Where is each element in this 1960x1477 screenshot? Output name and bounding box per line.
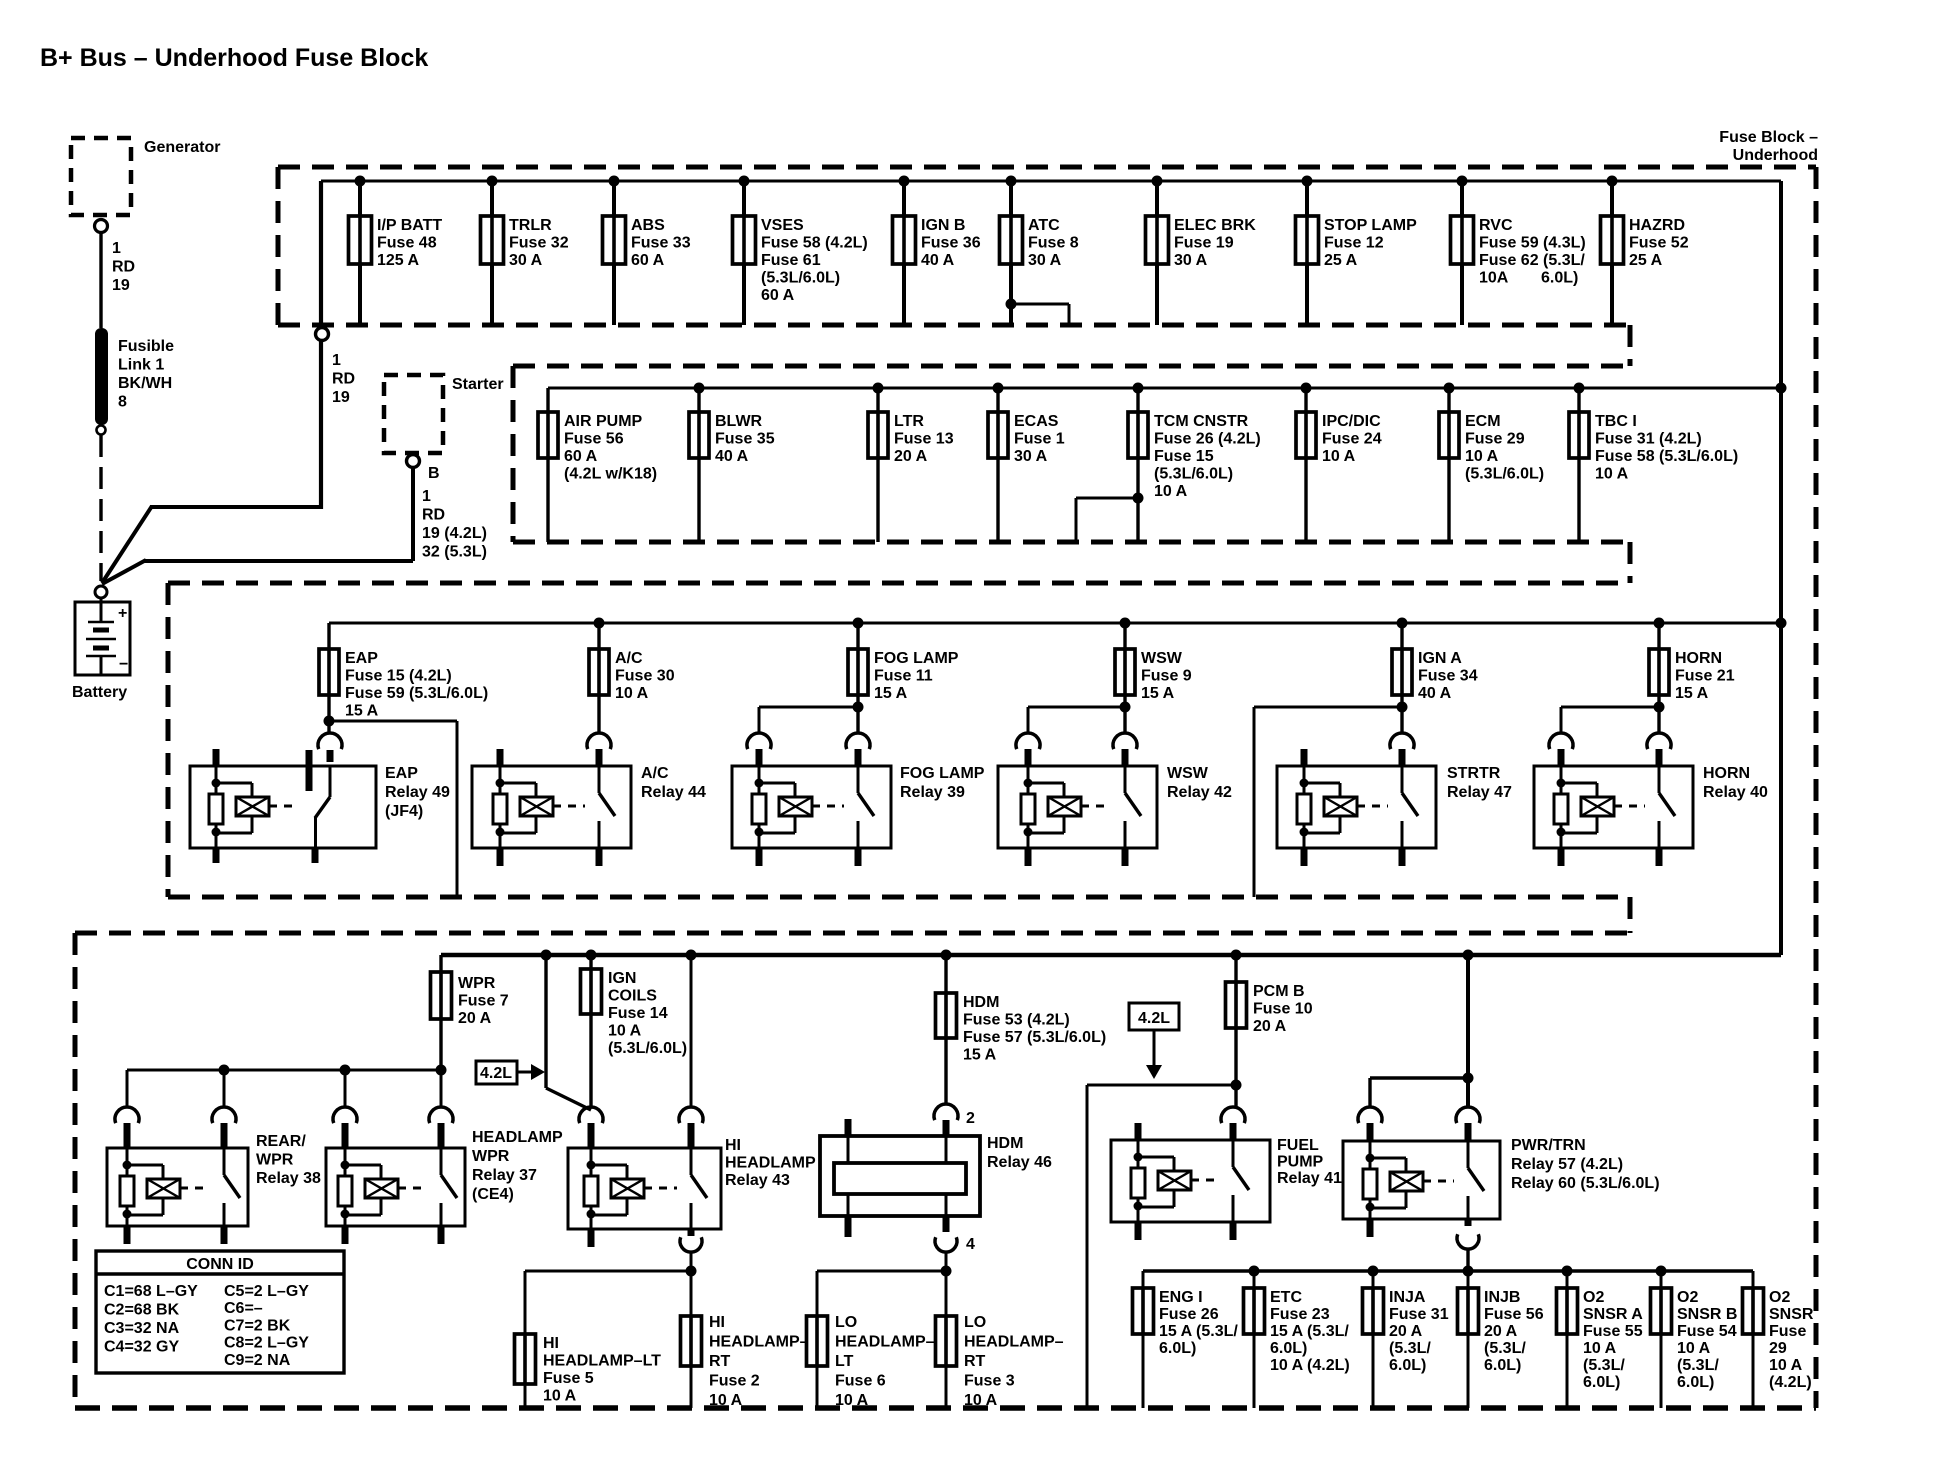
svg-text:15 A: 15 A <box>345 703 379 720</box>
svg-text:10 A: 10 A <box>709 1392 743 1409</box>
fuse EAP (row3) <box>319 623 488 720</box>
fuse block row1 dashed left edge <box>276 167 281 325</box>
battery positive terminal <box>95 586 107 598</box>
svg-text:6.0L): 6.0L) <box>1541 270 1578 287</box>
svg-text:A/C: A/C <box>641 765 669 782</box>
relay PWR/TRN Relay 57/60 <box>1343 1107 1660 1237</box>
svg-text:TCM CNSTR: TCM CNSTR <box>1154 413 1249 430</box>
svg-text:15 A (5.3L/: 15 A (5.3L/ <box>1159 1323 1238 1340</box>
svg-text:WSW: WSW <box>1141 650 1183 667</box>
fuse block row1 dashed top edge <box>278 165 1816 170</box>
fusible link 1 <box>95 328 108 425</box>
svg-text:Fuse 8: Fuse 8 <box>1028 235 1079 252</box>
fuse INJB (eng row) <box>1458 1266 1544 1409</box>
svg-text:HAZRD: HAZRD <box>1629 217 1685 234</box>
wire generator to fusible link <box>99 233 102 328</box>
svg-text:Fuse 56: Fuse 56 <box>1484 1306 1544 1323</box>
svg-text:60 A: 60 A <box>761 287 795 304</box>
fuse IGN A (row3) <box>1392 618 1478 703</box>
wire 4.2L diagonal feed <box>541 950 592 1111</box>
svg-text:40 A: 40 A <box>715 448 749 465</box>
svg-text:Fuse 34: Fuse 34 <box>1418 668 1478 685</box>
fuse ECM (row2) <box>1439 383 1544 543</box>
svg-text:10 A: 10 A <box>543 1388 577 1405</box>
svg-text:SNSR: SNSR <box>1769 1306 1814 1323</box>
svg-text:(JF4): (JF4) <box>385 803 423 820</box>
svg-text:Fuse 24: Fuse 24 <box>1322 431 1382 448</box>
relay HDM Relay 46 <box>820 1104 1052 1237</box>
svg-text:(5.3L/: (5.3L/ <box>1389 1340 1431 1357</box>
svg-text:ENG I: ENG I <box>1159 1289 1203 1306</box>
row2 bus <box>548 383 1787 394</box>
svg-text:Fuse 55: Fuse 55 <box>1583 1323 1643 1340</box>
svg-text:HEADLAMP: HEADLAMP <box>472 1129 563 1146</box>
fuse O2 SNSR (eng row) <box>1743 1271 1814 1408</box>
svg-text:BK/WH: BK/WH <box>118 375 172 392</box>
battery + sign <box>118 605 127 622</box>
svg-text:Underhood: Underhood <box>1733 147 1818 164</box>
svg-text:C7=2 BK: C7=2 BK <box>224 1317 291 1334</box>
fuse IPC/DIC (row2) <box>1296 383 1382 543</box>
fuse ATC (row1) <box>1000 176 1079 326</box>
svg-text:HEADLAMP: HEADLAMP <box>725 1155 816 1172</box>
svg-text:25 A: 25 A <box>1629 252 1663 269</box>
svg-text:(5.3L/: (5.3L/ <box>1484 1340 1526 1357</box>
svg-text:Relay 47: Relay 47 <box>1447 784 1512 801</box>
svg-text:C5=2 L–GY: C5=2 L–GY <box>224 1283 309 1300</box>
svg-text:Fuse 52: Fuse 52 <box>1629 235 1689 252</box>
fuse ENG I (eng row) <box>1133 1271 1239 1408</box>
svg-text:FUEL: FUEL <box>1277 1137 1319 1154</box>
ENG bus <box>1143 1269 1753 1272</box>
svg-text:ECAS: ECAS <box>1014 413 1059 430</box>
svg-text:Fuse 58 (4.2L): Fuse 58 (4.2L) <box>761 235 868 252</box>
svg-text:ETC: ETC <box>1270 1289 1302 1306</box>
svg-text:Fuse 57 (5.3L/6.0L): Fuse 57 (5.3L/6.0L) <box>963 1029 1106 1046</box>
svg-text:C2=68 BK: C2=68 BK <box>104 1302 180 1319</box>
fuse WPR Fuse 7 <box>431 955 509 1070</box>
fuse block notch row1-row2 <box>1628 325 1633 366</box>
relay HEADLAMP WPR Relay 37 <box>326 1107 563 1244</box>
svg-text:EAP: EAP <box>345 650 378 667</box>
fuse LO HEADLAMP-RT Fuse 3 <box>936 1314 1064 1409</box>
svg-text:10 A: 10 A <box>1154 483 1188 500</box>
svg-text:WPR: WPR <box>472 1148 510 1165</box>
svg-text:1: 1 <box>112 240 121 257</box>
starter B terminal <box>407 455 420 468</box>
svg-text:4.2L: 4.2L <box>480 1065 512 1082</box>
svg-text:Relay 60 (5.3L/6.0L): Relay 60 (5.3L/6.0L) <box>1511 1175 1660 1192</box>
svg-text:20 A: 20 A <box>894 448 928 465</box>
fuse TBC I (row2) <box>1569 383 1738 543</box>
wire terminal down to corner <box>319 340 323 509</box>
fuse block row2 dashed bottom edge <box>513 540 1630 545</box>
row3 bus <box>329 618 1787 629</box>
svg-text:4: 4 <box>966 1236 975 1253</box>
relay HI HEADLAMP Relay 43 <box>568 1107 816 1247</box>
svg-text:AIR PUMP: AIR PUMP <box>564 413 643 430</box>
fuse HI HEADLAMP-LT Fuse 5 <box>515 1334 662 1408</box>
svg-text:Fuse 59 (4.3L): Fuse 59 (4.3L) <box>1479 235 1586 252</box>
svg-text:Fuse 36: Fuse 36 <box>921 235 981 252</box>
svg-text:6.0L): 6.0L) <box>1159 1340 1196 1357</box>
svg-text:C3=32 NA: C3=32 NA <box>104 1320 180 1337</box>
svg-text:Fuse 32: Fuse 32 <box>509 235 569 252</box>
svg-text:10 A (4.2L): 10 A (4.2L) <box>1270 1357 1350 1374</box>
wire starter to battery <box>102 560 413 584</box>
svg-text:Fuse 14: Fuse 14 <box>608 1005 668 1022</box>
svg-text:RT: RT <box>964 1353 986 1370</box>
wire fusible link to battery (dashed) <box>99 435 102 581</box>
svg-text:LO: LO <box>835 1314 857 1331</box>
svg-text:10 A: 10 A <box>1769 1357 1803 1374</box>
svg-text:Fuse 48: Fuse 48 <box>377 235 437 252</box>
wire A/C fuse to relay switch <box>597 695 600 733</box>
svg-text:6.0L): 6.0L) <box>1270 1340 1307 1357</box>
svg-text:O2: O2 <box>1769 1289 1790 1306</box>
svg-text:TRLR: TRLR <box>509 217 552 234</box>
svg-text:HI: HI <box>709 1314 725 1331</box>
svg-text:10A: 10A <box>1479 270 1509 287</box>
svg-text:INJB: INJB <box>1484 1289 1520 1306</box>
fuse RVC (row1) <box>1451 176 1586 326</box>
svg-text:ATC: ATC <box>1028 217 1060 234</box>
fusible link lower terminal <box>97 426 106 435</box>
svg-text:10 A: 10 A <box>1677 1340 1711 1357</box>
svg-text:Fuse 13: Fuse 13 <box>894 431 954 448</box>
right feeder bus <box>1779 181 1783 955</box>
CONN ID table <box>96 1251 344 1373</box>
svg-text:40 A: 40 A <box>921 252 955 269</box>
fuse INJA (eng row) <box>1363 1266 1449 1409</box>
fuse block row4 dashed bottom edge <box>75 1405 1816 1411</box>
svg-text:4.2L: 4.2L <box>1138 1010 1170 1027</box>
wire HORN fuse output + coil branch <box>1561 695 1665 733</box>
svg-text:Link 1: Link 1 <box>118 357 164 374</box>
svg-text:LO: LO <box>964 1314 986 1331</box>
wire bus to PWR/TRN relay <box>1370 950 1474 1108</box>
svg-text:B+ Bus – Underhood Fuse Block: B+ Bus – Underhood Fuse Block <box>40 44 428 72</box>
svg-text:10 A: 10 A <box>1583 1340 1617 1357</box>
generator G1 (dashed box) <box>71 138 131 215</box>
svg-text:WSW: WSW <box>1167 765 1209 782</box>
svg-text:Relay 44: Relay 44 <box>641 784 706 801</box>
svg-text:SNSR A: SNSR A <box>1583 1306 1643 1323</box>
svg-text:19 (4.2L): 19 (4.2L) <box>422 525 487 542</box>
generator output terminal <box>95 220 108 233</box>
fuse BLWR (row2) <box>689 383 775 543</box>
svg-text:FOG LAMP: FOG LAMP <box>900 765 985 782</box>
svg-text:10 A: 10 A <box>964 1392 998 1409</box>
relay STRTR Relay 47 <box>1277 733 1512 866</box>
svg-text:HEADLAMP–: HEADLAMP– <box>835 1334 935 1351</box>
svg-text:Fuse 15: Fuse 15 <box>1154 448 1214 465</box>
fuse TRLR (row1) <box>481 176 569 326</box>
svg-text:IGN A: IGN A <box>1418 650 1462 667</box>
fuse block notch row3-row4 <box>1628 897 1633 933</box>
svg-text:19: 19 <box>112 277 130 294</box>
fuse FOG LAMP (row3) <box>848 618 959 703</box>
svg-text:TBC I: TBC I <box>1595 413 1637 430</box>
svg-text:CONN ID: CONN ID <box>186 1256 254 1273</box>
fuse block notch row2-row3 <box>1628 542 1633 583</box>
svg-text:Relay 49: Relay 49 <box>385 784 450 801</box>
svg-text:PUMP: PUMP <box>1277 1154 1324 1171</box>
fuse HORN (row3) <box>1649 618 1735 703</box>
svg-text:VSES: VSES <box>761 217 804 234</box>
svg-text:Relay 40: Relay 40 <box>1703 784 1768 801</box>
svg-text:FOG LAMP: FOG LAMP <box>874 650 959 667</box>
wire starter B down <box>411 468 415 561</box>
svg-text:IGN: IGN <box>608 970 636 987</box>
EAP relay pins+arc <box>216 733 342 863</box>
fuse HDM Fuse 53/57 <box>936 950 1107 1105</box>
connector 4 below HDM <box>935 1236 975 1271</box>
fuse AIR PUMP (row2) <box>538 388 657 542</box>
svg-text:Fuse 54: Fuse 54 <box>1677 1323 1737 1340</box>
svg-text:Relay 37: Relay 37 <box>472 1167 537 1184</box>
fuse block row3 dashed bottom edge <box>168 895 1630 900</box>
svg-text:Fuse 3: Fuse 3 <box>964 1373 1015 1390</box>
svg-text:HDM: HDM <box>963 994 999 1011</box>
relay A/C Relay 44 <box>472 733 706 866</box>
svg-text:Fuse 53 (4.2L): Fuse 53 (4.2L) <box>963 1012 1070 1029</box>
svg-text:Generator: Generator <box>144 139 220 156</box>
fuse ELEC BRK (row1) <box>1146 176 1257 326</box>
svg-text:Fuse 9: Fuse 9 <box>1141 668 1192 685</box>
row4 top bus <box>441 953 1781 958</box>
svg-text:RD: RD <box>112 259 135 276</box>
svg-text:Fuse 62 (5.3L/: Fuse 62 (5.3L/ <box>1479 252 1585 269</box>
svg-text:REAR/: REAR/ <box>256 1133 306 1150</box>
svg-text:Fuse 2: Fuse 2 <box>709 1373 760 1390</box>
svg-text:10 A: 10 A <box>608 1023 642 1040</box>
svg-text:(4.2L w/K18): (4.2L w/K18) <box>564 466 657 483</box>
connector below PWR/TRN relay <box>1457 1234 1479 1271</box>
svg-text:RVC: RVC <box>1479 217 1513 234</box>
fuse ETC (eng row) <box>1244 1266 1350 1409</box>
svg-text:Fuse 31 (4.2L): Fuse 31 (4.2L) <box>1595 431 1702 448</box>
svg-text:(CE4): (CE4) <box>472 1186 514 1203</box>
label B <box>428 465 440 482</box>
svg-text:STOP LAMP: STOP LAMP <box>1324 217 1417 234</box>
svg-text:19: 19 <box>332 389 350 406</box>
fuse PCM B Fuse 10 <box>1226 950 1313 1108</box>
svg-text:BLWR: BLWR <box>715 413 763 430</box>
svg-text:(5.3L/6.0L): (5.3L/6.0L) <box>1465 466 1544 483</box>
svg-text:1: 1 <box>332 352 341 369</box>
svg-text:ELEC BRK: ELEC BRK <box>1174 217 1256 234</box>
svg-text:15 A: 15 A <box>1675 685 1709 702</box>
fuse VSES (row1) <box>733 176 868 326</box>
fuse HAZRD (row1) <box>1601 176 1689 326</box>
svg-text:10 A: 10 A <box>615 685 649 702</box>
fuse block dashed right edge <box>1814 167 1819 1408</box>
svg-text:Relay 46: Relay 46 <box>987 1154 1052 1171</box>
svg-text:PCM B: PCM B <box>1253 983 1305 1000</box>
fuse LTR (row2) <box>868 383 954 543</box>
label Fuse Block - Underhood <box>1719 129 1818 164</box>
svg-text:Relay 57 (4.2L): Relay 57 (4.2L) <box>1511 1156 1623 1173</box>
HDM feed split <box>817 1266 952 1317</box>
svg-text:Fuse: Fuse <box>1769 1323 1806 1340</box>
HI headlamp feed split <box>525 1266 697 1335</box>
svg-text:(5.3L/: (5.3L/ <box>1677 1357 1719 1374</box>
svg-text:Fuse 29: Fuse 29 <box>1465 431 1525 448</box>
fuse WSW (row3) <box>1115 618 1192 703</box>
svg-text:RT: RT <box>709 1353 731 1370</box>
svg-text:RD: RD <box>332 371 355 388</box>
svg-text:HDM: HDM <box>987 1135 1023 1152</box>
svg-text:Fuse 5: Fuse 5 <box>543 1370 594 1387</box>
svg-text:Battery: Battery <box>72 684 127 701</box>
svg-text:C8=2 L–GY: C8=2 L–GY <box>224 1335 309 1352</box>
svg-text:6.0L): 6.0L) <box>1484 1357 1521 1374</box>
svg-text:15 A: 15 A <box>963 1047 997 1064</box>
svg-text:Fuse 26 (4.2L): Fuse 26 (4.2L) <box>1154 431 1261 448</box>
wire fuse block feed to battery <box>102 506 321 583</box>
svg-text:32 (5.3L): 32 (5.3L) <box>422 544 487 561</box>
fuse HI HEADLAMP-RT Fuse 2 <box>681 1314 809 1409</box>
svg-text:O2: O2 <box>1583 1289 1604 1306</box>
svg-text:60 A: 60 A <box>631 252 665 269</box>
svg-text:WPR: WPR <box>458 975 496 992</box>
svg-text:IGN B: IGN B <box>921 217 965 234</box>
svg-text:Relay 39: Relay 39 <box>900 784 965 801</box>
svg-text:Starter: Starter <box>452 376 504 393</box>
fuse TCM CNSTR (row2) <box>1076 383 1261 543</box>
svg-text:O2: O2 <box>1677 1289 1698 1306</box>
svg-text:RD: RD <box>422 507 445 524</box>
svg-text:25 A: 25 A <box>1324 252 1358 269</box>
fuse I/P BATT (row1) <box>349 176 443 326</box>
svg-text:Relay 42: Relay 42 <box>1167 784 1232 801</box>
svg-text:ABS: ABS <box>631 217 665 234</box>
fuse block row1 dashed bottom edge <box>278 323 1630 328</box>
svg-text:20 A: 20 A <box>1389 1323 1423 1340</box>
fuse IGN COILS Fuse 14 <box>581 950 688 1108</box>
connector below HI HEADLAMP relay <box>680 1237 702 1271</box>
svg-text:Fuse 31: Fuse 31 <box>1389 1306 1449 1323</box>
svg-text:I/P BATT: I/P BATT <box>377 217 442 234</box>
svg-text:EAP: EAP <box>385 765 418 782</box>
svg-text:Fuse 56: Fuse 56 <box>564 431 624 448</box>
svg-text:60 A: 60 A <box>564 448 598 465</box>
svg-text:10 A: 10 A <box>1465 448 1499 465</box>
svg-text:Fuse 7: Fuse 7 <box>458 993 509 1010</box>
svg-text:(5.3L/6.0L): (5.3L/6.0L) <box>1154 466 1233 483</box>
fuse ECAS (row2) <box>988 383 1065 543</box>
svg-text:HI: HI <box>543 1335 559 1352</box>
wire WSW fuse output + coil branch <box>1028 695 1131 733</box>
svg-text:6.0L): 6.0L) <box>1677 1374 1714 1391</box>
relay HORN Relay 40 <box>1534 733 1768 866</box>
svg-text:Fuse 21: Fuse 21 <box>1675 668 1735 685</box>
row1 B+ bus <box>321 180 1781 183</box>
relay REAR/WPR Relay 38 <box>107 1107 321 1244</box>
label Fusible Link 1 BK/WH 8 <box>118 338 174 411</box>
svg-text:STRTR: STRTR <box>1447 765 1501 782</box>
svg-text:Fuse 61: Fuse 61 <box>761 252 821 269</box>
relay FOG LAMP Relay 39 <box>732 733 985 866</box>
svg-text:Relay 38: Relay 38 <box>256 1170 321 1187</box>
wire label 1 RD 19 (4.2L) 32 (5.3L) <box>422 488 487 561</box>
fuse LO HEADLAMP-LT Fuse 6 <box>807 1314 935 1409</box>
svg-text:30 A: 30 A <box>509 252 543 269</box>
svg-text:WPR: WPR <box>256 1152 294 1169</box>
wire IGN A fuse output + branch to exit <box>1254 695 1408 897</box>
svg-text:(5.3L/6.0L): (5.3L/6.0L) <box>761 270 840 287</box>
fuse block row2 dashed top edge <box>513 364 1630 369</box>
svg-text:C6=–: C6=– <box>224 1300 263 1317</box>
svg-text:Relay 43: Relay 43 <box>725 1172 790 1189</box>
svg-text:B: B <box>428 465 440 482</box>
relay EAP Relay 49 (JF4) <box>190 766 376 848</box>
callout 4.2L (PCM) <box>1129 1003 1179 1079</box>
label Battery <box>72 684 127 701</box>
svg-text:10 A: 10 A <box>1322 448 1356 465</box>
svg-text:C9=2 NA: C9=2 NA <box>224 1352 291 1369</box>
fuse O2 SNSR B (eng row) <box>1651 1266 1738 1409</box>
B+ feed terminal <box>316 328 329 341</box>
wire PCM B 4.2L exit <box>1087 1080 1242 1409</box>
title <box>40 44 428 72</box>
pin label 2 <box>966 1110 975 1127</box>
svg-text:10 A: 10 A <box>1595 466 1629 483</box>
svg-text:Fusible: Fusible <box>118 338 174 355</box>
fuse A/C (row3) <box>589 618 675 703</box>
svg-text:29: 29 <box>1769 1340 1787 1357</box>
svg-text:Fuse 1: Fuse 1 <box>1014 431 1065 448</box>
svg-text:30 A: 30 A <box>1014 448 1048 465</box>
svg-text:HORN: HORN <box>1703 765 1750 782</box>
label EAP Relay 49 (JF4) <box>385 765 450 820</box>
svg-text:Fuse 35: Fuse 35 <box>715 431 775 448</box>
wire FOG LAMP fuse output + coil branch <box>759 695 864 733</box>
svg-text:Fuse 33: Fuse 33 <box>631 235 691 252</box>
svg-text:30 A: 30 A <box>1028 252 1062 269</box>
battery - sign <box>119 656 128 673</box>
fuse block row4 dashed left edge <box>73 933 78 1408</box>
label Starter <box>452 376 504 393</box>
svg-text:HEADLAMP–: HEADLAMP– <box>964 1334 1064 1351</box>
svg-text:20 A: 20 A <box>1253 1018 1287 1035</box>
wire battery feed up to B+ bus <box>319 181 323 333</box>
relay WSW Relay 42 <box>998 733 1232 866</box>
relay feed sub-bus <box>127 1065 447 1108</box>
svg-text:Fuse 59 (5.3L/6.0L): Fuse 59 (5.3L/6.0L) <box>345 685 488 702</box>
svg-text:PWR/TRN: PWR/TRN <box>1511 1137 1586 1154</box>
svg-text:(5.3L/6.0L): (5.3L/6.0L) <box>608 1040 687 1057</box>
svg-text:INJA: INJA <box>1389 1289 1426 1306</box>
svg-text:20 A: 20 A <box>458 1010 492 1027</box>
svg-text:−: − <box>119 656 128 673</box>
svg-text:C1=68 L–GY: C1=68 L–GY <box>104 1283 198 1300</box>
fuse IGN B (row1) <box>893 176 981 326</box>
svg-text:HEADLAMP–: HEADLAMP– <box>709 1334 809 1351</box>
fuse block row2 dashed left edge <box>511 366 516 542</box>
svg-text:30 A: 30 A <box>1174 252 1208 269</box>
fuse ABS (row1) <box>603 176 691 326</box>
svg-text:40 A: 40 A <box>1418 685 1452 702</box>
svg-text:Fuse 6: Fuse 6 <box>835 1373 886 1390</box>
wire label 1 RD 19 (feed) <box>332 352 355 406</box>
svg-text:Fuse 58 (5.3L/6.0L): Fuse 58 (5.3L/6.0L) <box>1595 448 1738 465</box>
svg-text:15 A (5.3L/: 15 A (5.3L/ <box>1270 1323 1349 1340</box>
svg-text:Fuse 10: Fuse 10 <box>1253 1001 1313 1018</box>
svg-text:SNSR B: SNSR B <box>1677 1306 1737 1323</box>
svg-text:(4.2L): (4.2L) <box>1769 1374 1812 1391</box>
